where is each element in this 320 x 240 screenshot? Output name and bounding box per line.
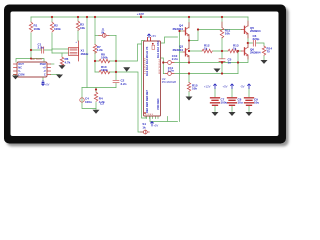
wire Q4 base [180,30,184,32]
connector J1 [102,34,106,38]
transistor Q6 [244,48,246,55]
crystal X1 [69,48,79,56]
connector P1 [168,61,172,65]
wire C6 row [248,43,264,46]
node +5V flag U1 bottom [42,81,45,86]
svg-text:2.2n: 2.2n [168,69,174,73]
svg-text:10k: 10k [192,87,197,91]
wire R10 to J2 [116,72,143,132]
wire node B y87.5 [82,87,116,89]
svg-text:+5V: +5V [154,124,159,128]
J1 red leads [99,34,109,36]
svg-text:V-: V- [18,69,21,73]
resistor R7 [93,45,96,54]
svg-text:1 2 3 4 5 6 7 8 9: 1 2 3 4 5 6 7 8 9 [144,57,146,74]
capacitor C5 [219,59,225,62]
op-amp U1 [14,57,51,77]
ground R6 [59,65,66,69]
svg-text:100u: 100u [221,101,228,105]
capacitor CP1 electrolytic [211,98,220,106]
capacitor CP3 electrolytic [245,98,254,106]
svg-text:100k: 100k [101,56,108,60]
svg-text:2N3904: 2N3904 [172,48,183,52]
IC U2 microcontroller [144,34,177,116]
transistor Q5 [244,26,246,33]
wire node A C1 row [31,49,52,51]
capacitor C1 [42,47,44,53]
wire Q4 collector [188,17,190,28]
svg-text:220p: 220p [253,37,260,41]
capacitor C6 [253,40,255,46]
svg-text:VDD RB3: VDD RB3 [156,98,160,110]
wire R4 ground stem [95,109,97,110]
wire CP2 stems [231,89,233,112]
resistor R10 [99,70,110,74]
ground U1 left [12,76,19,80]
node +12V flag CP1 [214,84,217,89]
wire U1 pin5 stub [51,63,55,65]
ground net y73 [214,69,221,73]
wire U1 top loop [16,50,44,62]
wire Q5 collector [247,17,249,26]
wire Q3 base [180,51,184,53]
resistor R3 [76,21,79,30]
svg-text:100n: 100n [85,100,92,104]
wire R8 staircase to U2 [116,41,145,62]
svg-text:10u: 10u [238,101,243,105]
wire Q6 collector [247,43,249,48]
svg-text:+12V: +12V [204,85,211,89]
wire top +12V rail [31,16,248,18]
wire y62.5 row [163,62,238,64]
wire x141.5 column [142,44,147,118]
resistor R4 [94,92,97,101]
wire R2 branch [51,17,53,53]
node +5V flag CP2 [231,84,234,89]
node +5V flag bottom center [151,122,154,127]
svg-text:C3: C3 [100,102,104,106]
wire U2 bottom pins [147,116,159,119]
svg-text:1k: 1k [233,47,237,51]
wire R15 stems [188,74,190,97]
node junctions right [197,28,199,30]
connector P2 [168,72,172,76]
svg-text:1k: 1k [142,125,146,129]
wire R8 row [95,60,116,62]
wire y51 row [189,50,242,52]
resistor R15 [187,83,190,92]
resistor R2 [50,22,53,32]
resistor R12 [202,49,212,53]
node -5V flag CP3 [248,84,251,89]
ground CP3 [246,112,253,116]
svg-text:2.2n: 2.2n [172,57,178,61]
wire J1 row left [95,34,99,36]
svg-text:2N3904: 2N3904 [250,51,261,55]
wire Q5 emitter down [247,35,249,44]
wire U2 right jog [161,37,178,43]
wire R10 row [95,71,116,73]
svg-text:+5V: +5V [45,84,50,87]
svg-text:10k: 10k [80,26,85,30]
svg-text:+5V: +5V [151,34,156,38]
wire Q4 emitter node [189,30,242,41]
svg-text:PGM: PGM [40,62,46,66]
svg-text:2N3904: 2N3904 [250,29,261,33]
ground U1 pin7 [56,75,63,79]
svg-text:2.2n: 2.2n [38,45,44,49]
wire U1 pin7 to ground [51,74,60,76]
wire R6 stem [61,53,63,57]
wire Q6 emitter loop [238,56,248,63]
wire x222 column [221,17,223,74]
wire column x116 [115,35,117,87]
svg-text:4.7k: 4.7k [65,60,71,64]
svg-text:2N3904: 2N3904 [172,27,183,31]
svg-text:C: C [44,73,46,77]
capacitor CP2 electrolytic [228,98,237,106]
wire CP1 stems [214,89,216,112]
svg-text:COM: COM [18,73,24,77]
connector J2 [143,130,147,134]
svg-text:1k: 1k [204,47,208,51]
ground R4 loop [93,110,100,114]
svg-text:PIC16F628: PIC16F628 [162,80,177,84]
node +12V rail label [137,12,144,18]
svg-text:10k: 10k [225,32,230,36]
resistor R8 [99,59,110,63]
transistor lead overlays [189,21,248,62]
svg-text:1.2k: 1.2k [97,48,103,52]
svg-text:75: 75 [267,50,271,54]
node rail junctions [51,16,53,18]
svg-text:NC: NC [18,66,22,70]
capacitor C2 [113,80,119,82]
node junctions mid [30,49,32,51]
svg-text:IN: IN [102,30,105,34]
svg-text:OUT: OUT [18,62,24,66]
resistor R13 [228,49,238,53]
svg-text:4MHz: 4MHz [81,52,89,56]
ground CP1 [212,112,219,116]
wire U1 bottom to +5V flag [42,77,44,81]
wire J1 row [109,34,117,36]
svg-text:+: + [75,40,77,44]
connector C4 input [80,98,84,102]
resistor R14 [262,46,265,55]
svg-text:18 17 16 15 14: 18 17 16 15 14 [159,59,161,74]
svg-text:100k: 100k [34,27,41,31]
connector J2 red leads [141,131,150,133]
svg-text:100k: 100k [101,68,108,72]
wire column x87 [86,17,88,88]
resistor R1 [29,22,32,32]
ground R15 [186,97,193,101]
ground net R10 row [123,67,130,71]
wire x179.5 column [179,31,181,122]
svg-text:+5V: +5V [222,85,227,89]
wire U1 left pin down [14,75,16,76]
wire X1 feeds [52,49,69,53]
wire R4 loop [82,88,96,109]
svg-text:2.2n: 2.2n [121,82,127,86]
svg-text:100k: 100k [54,27,61,31]
resistor R6 [60,57,63,66]
transistor Q4 [185,28,187,35]
svg-text:1n: 1n [228,61,232,65]
wire x238 column [237,51,239,74]
svg-text:RB4 RB5 RB6 RB7: RB4 RB5 RB6 RB7 [145,90,149,113]
wire Q3 collector [188,41,190,50]
ground R14 [261,60,268,64]
ground CP2 [229,112,236,116]
svg-text:OPT07P: OPT07P [31,57,43,61]
node J1 label [102,28,105,35]
resistor R11 [220,28,223,38]
svg-text:+V: +V [42,66,46,70]
svg-text:-V: -V [43,69,46,73]
wire R14 to ground [263,56,265,60]
node +5V flag U2 top [148,34,151,38]
wire U2 pin drop x163.3 [161,58,163,74]
wire column x95 [94,17,96,72]
wire Q3 emitter [188,56,190,63]
wire CP3 stems [248,89,250,112]
svg-text:+12V: +12V [137,12,144,16]
wire R3 branch [77,17,79,41]
svg-text:10u: 10u [254,101,259,105]
transistor Q3 [185,49,187,56]
frame border [4,5,286,144]
svg-text:RA1 RA0 OSC: RA1 RA0 OSC [156,40,160,58]
svg-text:-5V: -5V [240,85,244,89]
wire y73 long [163,73,238,75]
svg-text:1 2 3 4 5: 1 2 3 4 5 [145,114,154,116]
wire U2 bottom right loop [150,117,178,122]
wire R1 branch [30,17,32,50]
